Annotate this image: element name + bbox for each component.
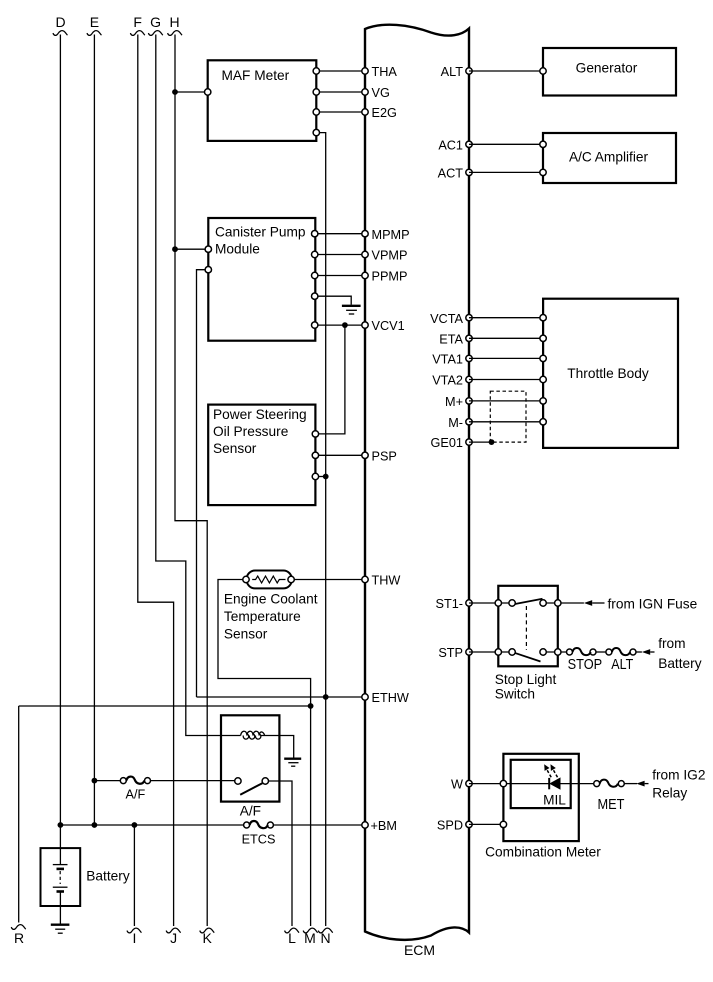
svg-text:F: F bbox=[133, 14, 142, 30]
svg-text:AC1: AC1 bbox=[438, 138, 463, 152]
wire E line down to +BM bbox=[93, 35, 95, 826]
pins throttle body bbox=[540, 315, 546, 425]
pin +BM bbox=[362, 819, 397, 833]
svg-text:A/F: A/F bbox=[126, 788, 146, 802]
terminal F bbox=[130, 14, 145, 35]
wire I line down bbox=[133, 825, 135, 926]
fuse ETCS bbox=[242, 821, 276, 847]
wire +BM row bbox=[60, 824, 365, 826]
terminal G bbox=[148, 14, 163, 35]
stop light switch contacts bottom row bbox=[495, 649, 561, 655]
pin generator bbox=[540, 68, 546, 74]
svg-text:Sensor: Sensor bbox=[213, 441, 257, 456]
svg-text:ST1-: ST1- bbox=[436, 597, 464, 611]
svg-text:Switch: Switch bbox=[495, 687, 535, 702]
pin E2G bbox=[362, 106, 397, 120]
svg-text:Power Steering: Power Steering bbox=[213, 407, 307, 422]
wire H line with jog to K terminal bbox=[175, 35, 207, 927]
junction E at +BM bbox=[92, 822, 98, 828]
pin ACT bbox=[438, 167, 473, 181]
junction pin3 bus bbox=[323, 474, 329, 480]
pin VTA1 bbox=[432, 353, 472, 367]
svg-text:Stop Light: Stop Light bbox=[495, 672, 557, 687]
svg-text:SPD: SPD bbox=[437, 819, 463, 833]
wire MPMP row bbox=[315, 233, 365, 235]
fuse MET bbox=[594, 780, 625, 813]
wire power steering pin 3 to bus bbox=[315, 476, 325, 478]
wire GE01 to shield bbox=[469, 441, 492, 443]
pin AC1 bbox=[438, 138, 472, 152]
svg-text:VTA1: VTA1 bbox=[432, 353, 463, 367]
wire E2G row bbox=[316, 111, 365, 113]
wire THW row bbox=[291, 579, 365, 581]
relay coil bbox=[241, 731, 265, 739]
junction ETHW bus bbox=[323, 694, 329, 700]
svg-text:E2G: E2G bbox=[372, 106, 397, 120]
svg-text:ETA: ETA bbox=[439, 332, 463, 346]
pin M+ bbox=[445, 395, 472, 409]
Combination Meter box bbox=[485, 754, 601, 860]
pin ETHW bbox=[362, 691, 409, 705]
junction VCV1 branch bbox=[342, 322, 348, 328]
svg-text:VCTA: VCTA bbox=[430, 312, 463, 326]
stop light switch lever top (closed) bbox=[515, 599, 543, 604]
wire VCV1 branch down to power steering pin 1 bbox=[315, 325, 345, 434]
wire MET to arrow bbox=[624, 783, 637, 785]
wire R line up bbox=[18, 706, 20, 923]
junction E at A/F fuse wire bbox=[92, 778, 98, 784]
wire ETHW row bbox=[197, 696, 366, 698]
pin GE01 bbox=[431, 436, 473, 450]
pins combination meter bbox=[500, 780, 506, 827]
Engine Coolant Temperature Sensor (thermistor pill) bbox=[224, 571, 318, 642]
wire VG row bbox=[316, 91, 365, 93]
svg-text:THW: THW bbox=[372, 574, 401, 588]
junction H-canister bbox=[172, 246, 178, 252]
stop light switch contacts top row bbox=[495, 600, 561, 606]
wire VCV1 row bbox=[315, 324, 365, 326]
mechanical link dashed bbox=[525, 606, 527, 650]
MAF pins bbox=[205, 68, 320, 136]
wire H to canister pin 1 bbox=[175, 248, 208, 250]
shield dashed box around M+ M- bbox=[490, 391, 526, 442]
junction I at +BM bbox=[132, 822, 138, 828]
svg-text:Temperature: Temperature bbox=[224, 609, 301, 624]
wire ALT row bbox=[469, 70, 543, 72]
svg-text:THA: THA bbox=[372, 65, 398, 79]
svg-text:Oil Pressure: Oil Pressure bbox=[213, 424, 288, 439]
svg-text:PPMP: PPMP bbox=[372, 270, 408, 284]
wire ACT row bbox=[469, 171, 543, 173]
wire relay coil to ground bbox=[261, 736, 294, 758]
arrow from Battery bbox=[642, 636, 702, 671]
svg-text:from IGN Fuse: from IGN Fuse bbox=[608, 596, 698, 611]
pin PSP bbox=[362, 449, 397, 463]
ground canister pump bbox=[342, 306, 361, 314]
junction D/battery at +BM bbox=[58, 822, 64, 828]
terminal K bbox=[200, 928, 215, 946]
svg-text:H: H bbox=[169, 14, 179, 30]
wire THA row bbox=[316, 70, 365, 72]
svg-text:MPMP: MPMP bbox=[372, 228, 410, 242]
svg-text:MET: MET bbox=[598, 796, 625, 813]
svg-text:G: G bbox=[150, 14, 161, 30]
wire AC1 row bbox=[469, 143, 543, 145]
fuse A/F bbox=[120, 777, 150, 802]
svg-text:+BM: +BM bbox=[371, 819, 397, 833]
wire G line with jog to relay coil bbox=[156, 35, 241, 736]
svg-text:ALT: ALT bbox=[441, 65, 464, 79]
battery box bbox=[41, 848, 130, 906]
pin ALT bbox=[441, 65, 473, 79]
battery cells bbox=[53, 825, 68, 924]
wire SPD row bbox=[469, 823, 503, 825]
pin ETA bbox=[439, 332, 472, 346]
arrow from IGN Fuse bbox=[584, 596, 697, 611]
svg-text:VTA2: VTA2 bbox=[432, 374, 463, 388]
wire MAF ground pin to vertical bus bbox=[316, 133, 325, 697]
arrow from IG2 Relay bbox=[636, 768, 705, 801]
terminal H bbox=[168, 14, 183, 35]
svg-text:VPMP: VPMP bbox=[372, 249, 408, 263]
svg-text:L: L bbox=[288, 930, 296, 946]
svg-text:MIL: MIL bbox=[543, 793, 566, 808]
wire N line down bbox=[325, 697, 327, 926]
svg-text:STP: STP bbox=[438, 646, 463, 660]
Generator box bbox=[543, 48, 676, 96]
wire M line down bbox=[310, 706, 312, 926]
terminal N bbox=[318, 928, 333, 946]
pin THA bbox=[362, 65, 398, 79]
stop light switch lever bottom (open) bbox=[515, 653, 541, 662]
svg-text:ECM: ECM bbox=[404, 942, 435, 958]
wire H to MAF meter left pin bbox=[175, 91, 208, 93]
svg-text:VG: VG bbox=[372, 86, 390, 100]
pin ST1- bbox=[436, 597, 473, 611]
wires throttle body rows bbox=[469, 318, 543, 422]
svg-text:Throttle Body: Throttle Body bbox=[567, 366, 649, 381]
ECM body outline with wavy top and bottom bbox=[365, 25, 469, 940]
junction R wire and M line bbox=[308, 703, 314, 709]
pin VG bbox=[362, 86, 390, 100]
pin VCTA bbox=[430, 312, 472, 326]
pins A/C amplifier bbox=[540, 141, 546, 175]
wire between fuses bbox=[596, 651, 606, 653]
wire canister ground pin bbox=[315, 296, 352, 305]
Stop Light Switch box bbox=[495, 586, 558, 702]
Power Steering Oil Pressure Sensor box bbox=[208, 405, 315, 506]
svg-text:ACT: ACT bbox=[438, 167, 464, 181]
Canister Pump Module box bbox=[208, 218, 315, 341]
svg-text:Battery: Battery bbox=[658, 656, 702, 671]
wire PPMP row bbox=[315, 275, 365, 277]
svg-text:I: I bbox=[132, 930, 136, 946]
relay switch lever bbox=[240, 783, 262, 795]
fuse STOP bbox=[567, 648, 603, 673]
wire ST1- row bbox=[469, 602, 584, 604]
svg-text:STOP: STOP bbox=[568, 656, 603, 673]
terminal I bbox=[127, 928, 142, 946]
MIL inner box bbox=[511, 760, 571, 808]
svg-text:K: K bbox=[203, 930, 213, 946]
terminal E bbox=[87, 14, 102, 35]
terminal L bbox=[285, 928, 300, 946]
svg-text:A/F: A/F bbox=[240, 804, 261, 819]
svg-text:ETCS: ETCS bbox=[242, 833, 276, 847]
svg-text:A/C Amplifier: A/C Amplifier bbox=[569, 150, 649, 165]
pin SPD bbox=[437, 819, 472, 833]
svg-text:M+: M+ bbox=[445, 395, 463, 409]
svg-text:ALT: ALT bbox=[611, 656, 633, 673]
wire A/F fuse row bbox=[94, 780, 238, 782]
svg-text:Relay: Relay bbox=[652, 786, 687, 801]
pin W bbox=[451, 778, 472, 792]
svg-text:Sensor: Sensor bbox=[224, 626, 268, 641]
svg-text:VCV1: VCV1 bbox=[372, 319, 405, 333]
junction H-MAF bbox=[172, 89, 178, 95]
wire THW sensor left pin path bbox=[218, 580, 311, 707]
pin M- bbox=[448, 416, 472, 430]
svg-text:N: N bbox=[320, 930, 330, 946]
svg-text:M-: M- bbox=[448, 416, 463, 430]
Canister pins bbox=[205, 231, 318, 329]
wire D line down to +BM bbox=[59, 35, 61, 826]
wire VPMP row bbox=[315, 254, 365, 256]
pin THW bbox=[362, 574, 401, 588]
junction GE01 shield bbox=[489, 439, 495, 445]
wire W row bbox=[469, 783, 594, 785]
wire R terminal row bbox=[19, 705, 311, 707]
wire PSP row bbox=[315, 454, 365, 456]
svg-text:GE01: GE01 bbox=[431, 436, 463, 450]
svg-text:J: J bbox=[170, 930, 177, 946]
svg-text:from: from bbox=[658, 636, 685, 651]
svg-text:Generator: Generator bbox=[576, 60, 638, 75]
svg-text:M: M bbox=[304, 930, 316, 946]
svg-text:MAF Meter: MAF Meter bbox=[222, 68, 290, 83]
wire F line with jog to J terminal bbox=[138, 35, 174, 927]
svg-text:W: W bbox=[451, 778, 463, 792]
svg-text:Module: Module bbox=[215, 242, 260, 257]
svg-text:Combination Meter: Combination Meter bbox=[485, 844, 601, 859]
relay switch contacts bbox=[235, 778, 269, 784]
wire ALT fuse to arrow bbox=[636, 651, 642, 653]
MAF Meter box bbox=[208, 60, 317, 141]
svg-text:E: E bbox=[90, 14, 99, 30]
pin VTA2 bbox=[432, 374, 472, 388]
fuse ALT bbox=[606, 648, 636, 673]
pin PPMP bbox=[362, 270, 408, 284]
svg-text:R: R bbox=[14, 930, 24, 946]
svg-text:ETHW: ETHW bbox=[372, 691, 409, 705]
pin STP bbox=[438, 646, 472, 660]
A/C Amplifier box bbox=[543, 133, 676, 183]
Power steering pins bbox=[312, 431, 318, 480]
svg-text:D: D bbox=[55, 14, 65, 30]
terminal M bbox=[303, 928, 318, 946]
pin VCV1 bbox=[362, 319, 405, 333]
wire canister pin 2 down to ETHW bbox=[197, 270, 209, 697]
wire STP row bbox=[469, 651, 567, 653]
svg-text:PSP: PSP bbox=[372, 449, 397, 463]
pin MPMP bbox=[362, 228, 410, 242]
ground relay bbox=[284, 759, 301, 767]
ground battery bbox=[51, 925, 70, 934]
svg-text:Engine Coolant: Engine Coolant bbox=[224, 592, 318, 607]
svg-text:Battery: Battery bbox=[86, 869, 130, 884]
terminal D bbox=[53, 14, 68, 35]
wire L line from relay contact bbox=[265, 781, 292, 926]
svg-text:from IG2: from IG2 bbox=[652, 768, 705, 783]
terminal R bbox=[11, 925, 26, 946]
LED MIL bbox=[544, 764, 560, 790]
terminal J bbox=[166, 928, 181, 946]
svg-text:Canister Pump: Canister Pump bbox=[215, 225, 306, 240]
pin VPMP bbox=[362, 249, 408, 263]
label ECM bbox=[404, 942, 435, 958]
Throttle Body box bbox=[543, 299, 678, 448]
relay A/F box bbox=[221, 715, 279, 818]
